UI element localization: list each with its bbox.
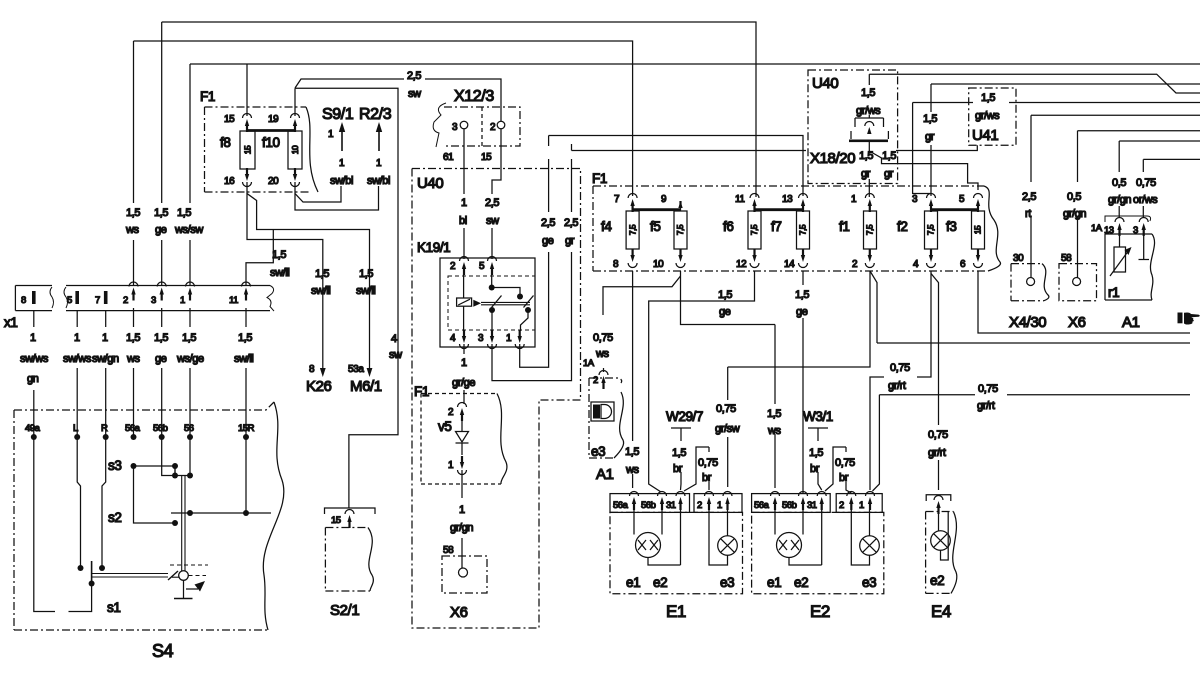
control unit U40 border (left) xyxy=(412,169,581,629)
svg-text:8: 8 xyxy=(309,364,315,375)
relay S9/1 terminal arrow xyxy=(328,122,353,187)
wire 2,5 sw from terminal 15 to X12/3 xyxy=(295,79,501,122)
svg-text:2: 2 xyxy=(593,375,598,386)
svg-text:10: 10 xyxy=(653,259,664,270)
wire x1-1 to S4 56 (1,5 ws/ge) xyxy=(176,308,204,437)
svg-text:rt: rt xyxy=(1025,208,1031,220)
svg-text:15: 15 xyxy=(331,515,341,526)
svg-text:ws: ws xyxy=(125,224,140,236)
svg-text:0,5: 0,5 xyxy=(1112,177,1126,189)
svg-text:gr/sw: gr/sw xyxy=(715,423,740,435)
diode unit v5 box xyxy=(421,394,507,485)
svg-text:br: br xyxy=(673,463,683,475)
svg-text:6: 6 xyxy=(960,259,966,270)
svg-text:7,5: 7,5 xyxy=(926,224,936,235)
svg-text:2: 2 xyxy=(490,122,496,133)
S4 wire s1 to 49a xyxy=(69,581,95,612)
wire pin 2 to E1 e3 (0,75 gr/sw) xyxy=(715,271,870,487)
svg-text:4: 4 xyxy=(450,333,456,344)
svg-text:7,5: 7,5 xyxy=(675,224,685,235)
svg-text:15: 15 xyxy=(243,145,253,154)
svg-text:x1: x1 xyxy=(4,315,17,330)
svg-text:16: 16 xyxy=(224,176,235,187)
wire C: terminal 58 bus y=64 xyxy=(190,64,1200,286)
pin 15 xyxy=(224,114,252,133)
svg-text:1: 1 xyxy=(448,460,454,471)
svg-text:ws: ws xyxy=(126,353,141,365)
K19/1 contact bar xyxy=(481,296,534,308)
svg-text:0,75: 0,75 xyxy=(890,362,910,374)
wire pin 4 to E2 e3 (0,75 gr/rt) xyxy=(870,271,931,490)
svg-text:1: 1 xyxy=(74,332,80,344)
svg-text:1,5: 1,5 xyxy=(809,447,823,459)
svg-text:1,5: 1,5 xyxy=(672,447,686,459)
headlamp unit A1 border xyxy=(1105,234,1155,300)
S4 link bar vertical xyxy=(182,476,185,572)
svg-text:f3: f3 xyxy=(946,219,956,234)
wire label 1,5 ge xyxy=(154,207,168,236)
S4 s3 contacts 56b 56 xyxy=(162,437,193,479)
svg-text:v5: v5 xyxy=(438,419,451,434)
svg-text:1: 1 xyxy=(506,333,512,344)
connector X12/3 border xyxy=(433,103,520,147)
wire x1-5 to S4 L (1 sw/ws) xyxy=(63,311,92,437)
S4 wire 15R xyxy=(245,437,247,513)
wire A: x1 pin3 to F1 pin11 y=22 xyxy=(162,22,756,286)
K19/1 pin 1 xyxy=(506,330,524,349)
wire label 1,5 ws xyxy=(125,207,140,236)
headlamp unit E1 connector strip 2 xyxy=(694,492,742,513)
svg-text:1: 1 xyxy=(376,158,382,169)
S4 wire L contact xyxy=(77,437,83,571)
svg-text:gr/gn: gr/gn xyxy=(450,522,473,534)
svg-text:2: 2 xyxy=(839,500,844,511)
wire pin 14 to E2 56b (1,5 ge) xyxy=(795,271,809,494)
svg-text:s2: s2 xyxy=(108,510,121,525)
svg-text:f4: f4 xyxy=(601,219,612,234)
x1 connector strip segment 1 xyxy=(15,286,53,311)
svg-text:K19/1: K19/1 xyxy=(417,240,450,255)
svg-text:f6: f6 xyxy=(723,219,733,234)
x1 pin 7 xyxy=(95,291,107,306)
svg-text:4: 4 xyxy=(913,259,919,270)
svg-text:56a: 56a xyxy=(754,500,770,511)
fuse box F1 (right) border xyxy=(593,186,1001,271)
svg-text:1: 1 xyxy=(717,500,722,511)
svg-text:U41: U41 xyxy=(972,127,998,144)
wire pin16 to K26 xyxy=(247,194,323,364)
svg-text:sw/ws: sw/ws xyxy=(20,353,49,365)
S4 actuation arrow xyxy=(186,581,205,592)
fuse f8 15A xyxy=(220,131,255,169)
U41 labels 1,5 gr/ws xyxy=(975,92,1000,122)
K19/1 pin 4 xyxy=(450,330,469,349)
fuse f2 xyxy=(897,211,938,249)
S4 pin 56 xyxy=(184,423,194,440)
wire K19/1-1 to 2,5 ge feeder xyxy=(520,252,549,367)
svg-text:1: 1 xyxy=(461,357,467,369)
svg-text:f8: f8 xyxy=(220,135,230,150)
F1 pin 10 xyxy=(653,249,685,270)
svg-text:1,5: 1,5 xyxy=(126,332,140,344)
svg-text:0,75: 0,75 xyxy=(698,457,718,469)
wire K19/1-4 to v5 (1 gr/ge) xyxy=(452,344,475,404)
svg-text:X12/3: X12/3 xyxy=(454,88,494,105)
bus f4-f5 xyxy=(633,208,681,211)
K19/1 coil xyxy=(457,274,481,331)
svg-text:15: 15 xyxy=(973,225,983,234)
svg-text:gr/gn: gr/gn xyxy=(1108,194,1131,206)
svg-text:1,5: 1,5 xyxy=(861,87,875,99)
x1 connector strip segment 2 xyxy=(64,286,274,312)
svg-text:e1: e1 xyxy=(767,575,781,590)
svg-text:e2: e2 xyxy=(794,575,808,590)
fuse f1 xyxy=(839,211,877,249)
svg-text:ws/sw: ws/sw xyxy=(174,224,203,236)
svg-text:e2: e2 xyxy=(930,573,944,588)
x1 pin 3 xyxy=(151,282,166,306)
svg-text:ge: ge xyxy=(155,224,167,236)
svg-text:A1: A1 xyxy=(596,466,614,483)
svg-text:49a: 49a xyxy=(25,423,41,434)
fuse f10 10A xyxy=(262,131,302,169)
label 2,5 gr xyxy=(564,217,578,247)
svg-text:2,5: 2,5 xyxy=(485,197,499,209)
svg-text:A1: A1 xyxy=(1122,314,1140,331)
S4 pin L xyxy=(73,423,80,440)
svg-text:R: R xyxy=(101,423,108,434)
svg-text:1,5: 1,5 xyxy=(154,332,168,344)
svg-text:ge: ge xyxy=(796,306,808,318)
feeder 0,5 gr/gn to A1 pin 13 xyxy=(1108,141,1200,218)
pin 20 xyxy=(268,168,300,187)
svg-text:8: 8 xyxy=(613,259,619,270)
wire W3/1 to E2 31 (1,5 br) xyxy=(809,447,823,490)
svg-text:1: 1 xyxy=(339,158,345,169)
pin 16 xyxy=(224,168,252,187)
wire label 1,5 ws/sw xyxy=(174,207,203,236)
svg-text:sw: sw xyxy=(408,88,421,100)
S4 switch s3 row xyxy=(108,458,178,477)
line E gr to right edge xyxy=(931,83,1200,85)
S4 pin 56a xyxy=(125,423,141,440)
wire 2,5 ge to F1 pin13 xyxy=(548,136,550,147)
svg-text:1,5: 1,5 xyxy=(795,289,809,301)
svg-text:4: 4 xyxy=(391,333,397,345)
svg-text:1: 1 xyxy=(461,197,467,209)
x1 pin 11 xyxy=(229,282,251,306)
svg-text:gr/gn: gr/gn xyxy=(1063,208,1086,220)
svg-text:58: 58 xyxy=(443,545,454,556)
wire 0,75 gr/rt bus y=395 to right edge xyxy=(873,383,1191,491)
label 2,5 ge xyxy=(541,217,555,247)
svg-text:gr/rt: gr/rt xyxy=(977,400,995,412)
svg-text:sw/gn: sw/gn xyxy=(92,353,119,365)
svg-text:br: br xyxy=(810,463,820,475)
F1 pin 7 xyxy=(614,194,637,213)
ground W29/7 xyxy=(666,409,703,441)
svg-text:f1: f1 xyxy=(839,219,849,234)
svg-text:2,5: 2,5 xyxy=(541,217,555,229)
svg-text:S2/1: S2/1 xyxy=(330,602,359,619)
X12/3 pin 2 xyxy=(481,121,505,163)
E2 lamp e3 xyxy=(851,510,879,565)
svg-text:19: 19 xyxy=(268,114,279,125)
relay R2/3 terminal arrow xyxy=(367,122,390,187)
svg-text:11: 11 xyxy=(229,295,238,306)
feeder y=135.5 to pin 13 xyxy=(549,136,803,197)
wire f10 pin19 loop to S2/1 (4 sw) xyxy=(295,88,398,508)
terminal 53a arrow to M6/1 xyxy=(348,363,382,395)
svg-text:1,5: 1,5 xyxy=(923,113,937,125)
svg-text:10: 10 xyxy=(290,145,300,154)
F1 pin 11 xyxy=(735,194,759,213)
svg-text:sw/li: sw/li xyxy=(234,353,253,365)
headlamp unit E2 connector strip 1 xyxy=(752,492,831,513)
S4 pin 49a xyxy=(25,423,41,440)
wire pin 10 to E2 56a (1,5 ws) xyxy=(681,271,782,488)
wire label 1,5 sw/li (x1-11) xyxy=(270,249,289,279)
svg-text:1,5: 1,5 xyxy=(625,446,639,458)
wire f8 pin15 feed from bus C xyxy=(246,64,248,116)
svg-text:53a: 53a xyxy=(348,364,364,375)
svg-text:8: 8 xyxy=(21,295,26,306)
svg-text:ge: ge xyxy=(719,306,731,318)
turn lamp E4 connector bracket xyxy=(926,495,951,514)
headlamp range actuator e3/A1 connector xyxy=(593,371,608,390)
svg-text:0,75: 0,75 xyxy=(716,403,736,415)
svg-text:7,5: 7,5 xyxy=(749,224,759,235)
K19/1 pin 3 xyxy=(478,330,497,349)
svg-text:sw: sw xyxy=(486,215,499,227)
continuation hand symbol xyxy=(1178,312,1200,324)
A1 pin 3 internal termination xyxy=(1139,236,1150,260)
F1 pin 2 xyxy=(852,249,874,270)
svg-text:1,5: 1,5 xyxy=(315,268,329,280)
svg-text:14: 14 xyxy=(784,259,795,270)
svg-text:3: 3 xyxy=(478,333,484,344)
socket X4/30 border xyxy=(1011,253,1049,301)
wire X18/20 branch to F1 pin 5 (1,5 gr) xyxy=(869,150,978,190)
svg-text:X18/20: X18/20 xyxy=(810,150,855,167)
svg-text:gr: gr xyxy=(925,131,935,143)
svg-text:56b: 56b xyxy=(153,423,168,434)
label 1,5 gr/ws xyxy=(856,87,881,117)
svg-text:ws/ge: ws/ge xyxy=(176,353,204,365)
S4 switch s2 row xyxy=(108,510,271,525)
svg-text:X6: X6 xyxy=(450,604,468,621)
svg-text:20: 20 xyxy=(268,176,279,187)
S4 wire R contact xyxy=(99,437,106,571)
svg-text:K26: K26 xyxy=(306,378,332,395)
svg-text:9: 9 xyxy=(661,194,667,205)
feeder y=150.5 from 2,5 gr to U41 xyxy=(572,144,978,151)
svg-text:2: 2 xyxy=(852,259,858,270)
fuse f5 xyxy=(650,211,687,249)
X12/3 pin 3 xyxy=(443,121,468,163)
socket X6 (right) border xyxy=(1059,253,1097,301)
svg-text:1,5: 1,5 xyxy=(272,249,286,261)
fuse f7 xyxy=(771,211,810,249)
plug connector S2/1 bracket xyxy=(325,508,376,528)
svg-text:F1: F1 xyxy=(200,89,215,104)
label 2,5 sw xyxy=(407,70,421,100)
svg-text:f7: f7 xyxy=(771,219,781,234)
wire K19/1-3 to 2,5 gr feeder xyxy=(492,252,572,381)
svg-text:1,5: 1,5 xyxy=(718,289,732,301)
svg-text:61: 61 xyxy=(443,152,454,163)
svg-text:F1: F1 xyxy=(592,171,607,186)
svg-text:sw/li: sw/li xyxy=(356,285,375,297)
wire x1-8 to S4 49a (1 sw/ws gn) xyxy=(20,311,49,437)
svg-text:gr/rt: gr/rt xyxy=(888,380,906,392)
svg-text:31: 31 xyxy=(807,500,817,511)
headlamp unit A1 connector bracket xyxy=(1091,216,1151,236)
wire B: x1 pin2 to F1 pin7 y=41 xyxy=(134,41,633,286)
F1 pin 6 xyxy=(960,249,983,270)
pin 19 xyxy=(268,114,300,133)
control unit U40 border (top right) xyxy=(808,70,898,184)
svg-text:sw/li: sw/li xyxy=(270,267,289,279)
S4 pivot anchor xyxy=(174,580,193,598)
svg-text:5: 5 xyxy=(67,295,72,306)
svg-text:3: 3 xyxy=(912,194,918,205)
svg-text:gr/ws: gr/ws xyxy=(975,110,1000,122)
svg-text:e2: e2 xyxy=(653,575,667,590)
wire x1-2 to S4 56a (1,5 ws) xyxy=(126,308,141,437)
svg-text:1: 1 xyxy=(851,194,857,205)
svg-text:5: 5 xyxy=(479,261,485,272)
svg-text:3: 3 xyxy=(151,295,156,306)
svg-text:E4: E4 xyxy=(931,602,951,621)
E1 lamp e3 xyxy=(709,510,737,565)
wire W29/7 to E1 31 (1,5 br) xyxy=(672,447,686,490)
svg-text:e3: e3 xyxy=(591,444,605,459)
fuse f4 xyxy=(601,211,639,249)
F1 pin 14 xyxy=(784,249,808,270)
v5 pin 2 xyxy=(448,403,467,422)
svg-text:e1: e1 xyxy=(626,575,640,590)
svg-text:31: 31 xyxy=(666,500,676,511)
svg-text:1,5: 1,5 xyxy=(882,150,896,162)
wire U41 left leg to F1 pin 3 xyxy=(913,103,931,194)
svg-text:1,5: 1,5 xyxy=(359,268,373,280)
x1 pin 5 xyxy=(67,291,79,306)
svg-text:f10: f10 xyxy=(262,135,280,150)
svg-text:ws: ws xyxy=(595,348,610,360)
svg-text:gr: gr xyxy=(884,168,894,180)
svg-text:U40: U40 xyxy=(417,175,443,192)
svg-text:3: 3 xyxy=(452,122,458,133)
x1 pin 8 xyxy=(21,291,36,306)
svg-text:or/ws: or/ws xyxy=(1133,194,1158,206)
svg-text:1,5: 1,5 xyxy=(767,408,781,420)
switch unit S4 border xyxy=(14,402,284,630)
svg-text:sw/ws: sw/ws xyxy=(63,353,92,365)
F1 pin 8 xyxy=(613,249,637,270)
svg-text:W29/7: W29/7 xyxy=(666,409,703,424)
bus f6-f7 xyxy=(755,208,804,211)
wire pin 12 to E1 56b (1,5 ge) xyxy=(649,271,755,492)
x1 pin 1 xyxy=(180,282,195,306)
wire F1 pin 6 output xyxy=(978,271,1190,333)
headlamp unit E1 connector strip 1 xyxy=(610,492,690,513)
wire X12/3-3 to K19/1-2 (1 bl) xyxy=(459,129,467,259)
svg-text:7,5: 7,5 xyxy=(627,224,637,235)
svg-text:1,5: 1,5 xyxy=(126,207,140,219)
svg-text:12: 12 xyxy=(736,259,747,270)
svg-text:gr: gr xyxy=(861,168,871,180)
headlamp unit E1 border xyxy=(610,512,743,593)
svg-text:gr/ge: gr/ge xyxy=(452,377,475,389)
wire v5 to X6 (1 gr/gn) xyxy=(450,470,473,556)
svg-text:e3: e3 xyxy=(862,575,876,590)
ground W3/1 xyxy=(803,409,833,441)
F1 pin 3 xyxy=(912,194,936,213)
svg-text:15: 15 xyxy=(224,114,235,125)
svg-text:15R: 15R xyxy=(238,423,255,434)
svg-text:ge: ge xyxy=(542,235,554,247)
S4 pin 15R xyxy=(238,423,255,440)
svg-text:1,5: 1,5 xyxy=(154,207,168,219)
svg-text:E1: E1 xyxy=(666,602,686,621)
wire X18/20 up to wire D xyxy=(868,74,870,118)
svg-text:L: L xyxy=(73,423,78,434)
svg-text:13: 13 xyxy=(782,194,793,205)
fuse box F1 (left) border xyxy=(205,107,319,192)
wire W3/1 to E2 2 (0,75 br) xyxy=(825,447,855,493)
wire x1-7 to S4 R (1 sw/gn) xyxy=(92,311,119,437)
svg-text:sw: sw xyxy=(389,349,402,361)
socket X6 (bottom) border xyxy=(442,545,487,593)
wire D gr/ws to right edge xyxy=(869,74,1200,93)
F1 pin 1 xyxy=(851,194,874,213)
S4 pivot circle xyxy=(170,565,208,580)
svg-text:sw/bl: sw/bl xyxy=(330,175,353,187)
diode unit U41 border xyxy=(969,88,1016,145)
svg-text:2,5: 2,5 xyxy=(1022,191,1036,203)
K19/1 pin 2 xyxy=(450,257,469,276)
svg-text:1A: 1A xyxy=(583,358,595,369)
svg-text:7: 7 xyxy=(95,295,100,306)
svg-text:gr/rt: gr/rt xyxy=(928,447,946,459)
bus bar f8-f10 terminal 15 xyxy=(247,129,295,132)
F1 pin 13 xyxy=(782,194,808,213)
S4 pin 56b xyxy=(153,423,168,440)
wire F1 pin 3 up to line E xyxy=(923,84,937,196)
svg-text:E2: E2 xyxy=(810,602,830,621)
E2 lamp e1 (double filament) xyxy=(775,510,822,565)
svg-text:f5: f5 xyxy=(650,219,660,234)
svg-text:1A: 1A xyxy=(1091,223,1103,234)
svg-text:bl: bl xyxy=(459,215,467,227)
svg-text:e3: e3 xyxy=(720,575,734,590)
E1 lamp e1 (double filament) xyxy=(634,510,681,565)
svg-text:f2: f2 xyxy=(897,219,907,234)
svg-text:S9/1: S9/1 xyxy=(322,106,354,123)
wire label 1,5 sw/li (M6/1) xyxy=(356,268,375,297)
svg-text:56b: 56b xyxy=(641,500,656,511)
svg-text:2: 2 xyxy=(123,295,128,306)
svg-text:s3: s3 xyxy=(108,458,121,473)
E4 lamp e2 xyxy=(931,511,951,560)
v5 pin 1 xyxy=(448,456,467,475)
svg-text:1,5: 1,5 xyxy=(981,92,995,104)
svg-text:11: 11 xyxy=(735,194,745,205)
feeder 0,75 or/ws to A1 pin 3 xyxy=(1133,159,1200,218)
wire W29/7 to E1 2 (0,75 br) xyxy=(684,447,718,491)
K19/1 contact nodes xyxy=(489,274,531,331)
